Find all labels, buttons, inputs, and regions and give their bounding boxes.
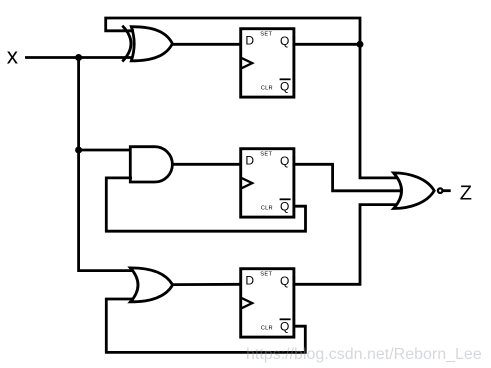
wire: OR output to FF3 D: [173, 283, 241, 286]
svg-text:https://blog.csdn.net/Reborn_L: https://blog.csdn.net/Reborn_Lee: [246, 346, 482, 363]
node: FF1 Q junction: [357, 41, 364, 48]
and gate U2: [130, 147, 172, 182]
node: AND branch junction: [75, 147, 82, 154]
wire: FF1 Q output: [294, 43, 360, 46]
wire: FF1 Q down to NOR top input: [360, 44, 397, 178]
d flip-flop FF3: [241, 269, 294, 337]
svg-text:x: x: [7, 44, 19, 69]
wire: FF3 Qbar feedback to OR lower input: [106, 299, 305, 352]
svg-text:Z: Z: [460, 182, 472, 204]
wire: NOR output: [443, 189, 451, 192]
node: x junction: [75, 54, 82, 61]
wire: branch to AND top input: [79, 149, 132, 152]
xor gate U1: [122, 26, 172, 62]
wire: x input to XOR lower input: [25, 56, 134, 59]
wire: vertical bus from x junction down to OR top input: [79, 58, 134, 271]
or gate U3: [130, 268, 172, 302]
d flip-flop FF1: [241, 29, 294, 97]
d flip-flop FF2: [241, 149, 294, 217]
wire: AND output to FF2 D: [172, 163, 241, 166]
nor gate U4: [394, 173, 443, 209]
wire: FF2 Q to NOR middle input: [294, 164, 403, 191]
wire: FF2 Qbar feedback to AND lower input: [106, 178, 305, 231]
wire: FF3 Q to NOR bottom input: [294, 205, 397, 285]
wire: XOR output to FF1 D: [172, 43, 241, 46]
wire: feedback from FF1 Q up and around to XOR top input: [106, 18, 360, 44]
